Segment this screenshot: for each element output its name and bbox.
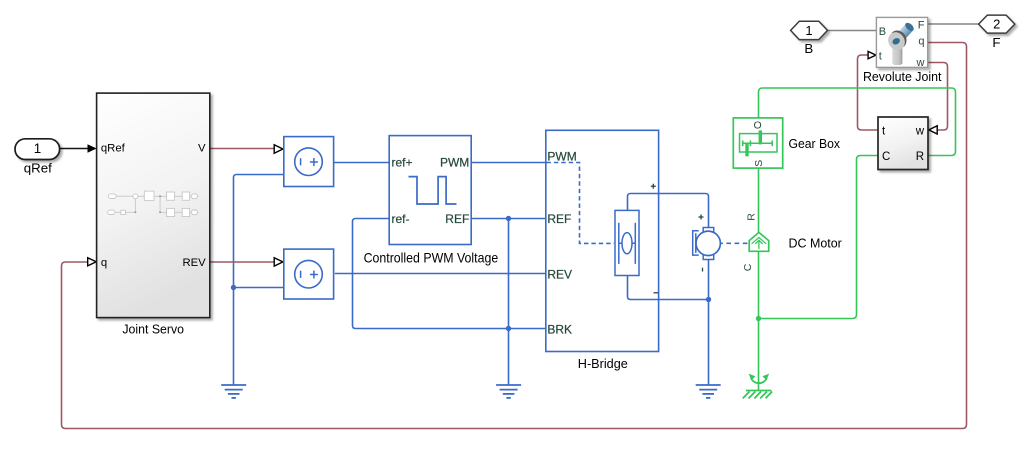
svg-text:C: C <box>742 263 754 271</box>
svg-text:B: B <box>804 41 813 56</box>
svg-text:Revolute Joint: Revolute Joint <box>863 69 942 84</box>
svg-text:F: F <box>992 35 1000 50</box>
svg-text:q: q <box>101 257 107 269</box>
svg-text:REV: REV <box>547 267 572 281</box>
svg-text:REF: REF <box>445 212 469 226</box>
svg-text:1: 1 <box>34 141 41 156</box>
svg-text:ref-: ref- <box>392 212 410 226</box>
svg-text:w: w <box>915 125 925 137</box>
svg-text:C: C <box>882 151 890 163</box>
svg-text:F: F <box>918 19 925 31</box>
svg-text:REV: REV <box>182 257 206 269</box>
svg-text:R: R <box>916 151 924 163</box>
svg-text:qRef: qRef <box>101 143 126 155</box>
svg-text:Gear Box: Gear Box <box>789 136 841 151</box>
svg-text:H-Bridge: H-Bridge <box>578 356 628 371</box>
svg-text:2: 2 <box>993 17 1000 32</box>
svg-text:ref+: ref+ <box>392 156 413 170</box>
svg-text:Joint Servo: Joint Servo <box>122 322 184 337</box>
svg-text:PWM: PWM <box>547 150 576 164</box>
svg-text:R: R <box>745 213 757 221</box>
svg-text:V: V <box>198 143 206 155</box>
svg-text:1: 1 <box>805 23 812 38</box>
svg-text:Controlled PWM Voltage: Controlled PWM Voltage <box>364 250 499 265</box>
svg-text:O: O <box>754 119 762 131</box>
svg-text:DC Motor: DC Motor <box>789 235 843 250</box>
svg-text:qRef: qRef <box>24 160 52 175</box>
svg-text:BRK: BRK <box>547 322 572 336</box>
svg-text:w: w <box>916 57 925 69</box>
svg-text:PWM: PWM <box>440 156 469 170</box>
svg-text:t: t <box>879 50 882 62</box>
svg-text:q: q <box>918 36 924 48</box>
svg-text:S: S <box>753 160 765 167</box>
svg-text:B: B <box>879 26 886 38</box>
svg-text:REF: REF <box>547 212 571 226</box>
